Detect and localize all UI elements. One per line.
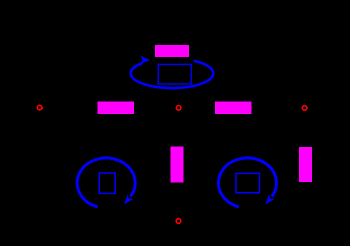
terminal port P1 (left, red open circle with stub)	[37, 105, 42, 110]
node N1 (center terminal, red open circle)	[176, 106, 181, 111]
resistor R3 (middle-right horizontal, magenta body)	[215, 102, 252, 115]
resistor R2 (middle-left horizontal, magenta body)	[98, 102, 135, 115]
mesh I1 label box (blue rectangle)	[99, 173, 115, 193]
resistor R1 (top bridging resistor, magenta body)	[155, 45, 189, 57]
mesh current loop I1 (bottom-left, clockwise circle arrow)	[77, 158, 135, 207]
mesh current loop I2 (bottom-right, clockwise circle arrow)	[218, 158, 276, 207]
terminal port P2 (right, red open circle)	[302, 106, 307, 111]
mesh I3 label box (blue rectangle)	[158, 64, 191, 84]
ground node N0 (bottom terminal, red open circle with top tick)	[176, 219, 181, 224]
resistor R5 (right vertical, magenta body)	[299, 147, 312, 182]
mesh current loop I3 (top, clockwise ellipse arrow)	[131, 56, 214, 88]
resistor R4 (middle vertical, magenta body)	[171, 147, 184, 183]
mesh I2 label box (blue rectangle)	[236, 173, 260, 192]
